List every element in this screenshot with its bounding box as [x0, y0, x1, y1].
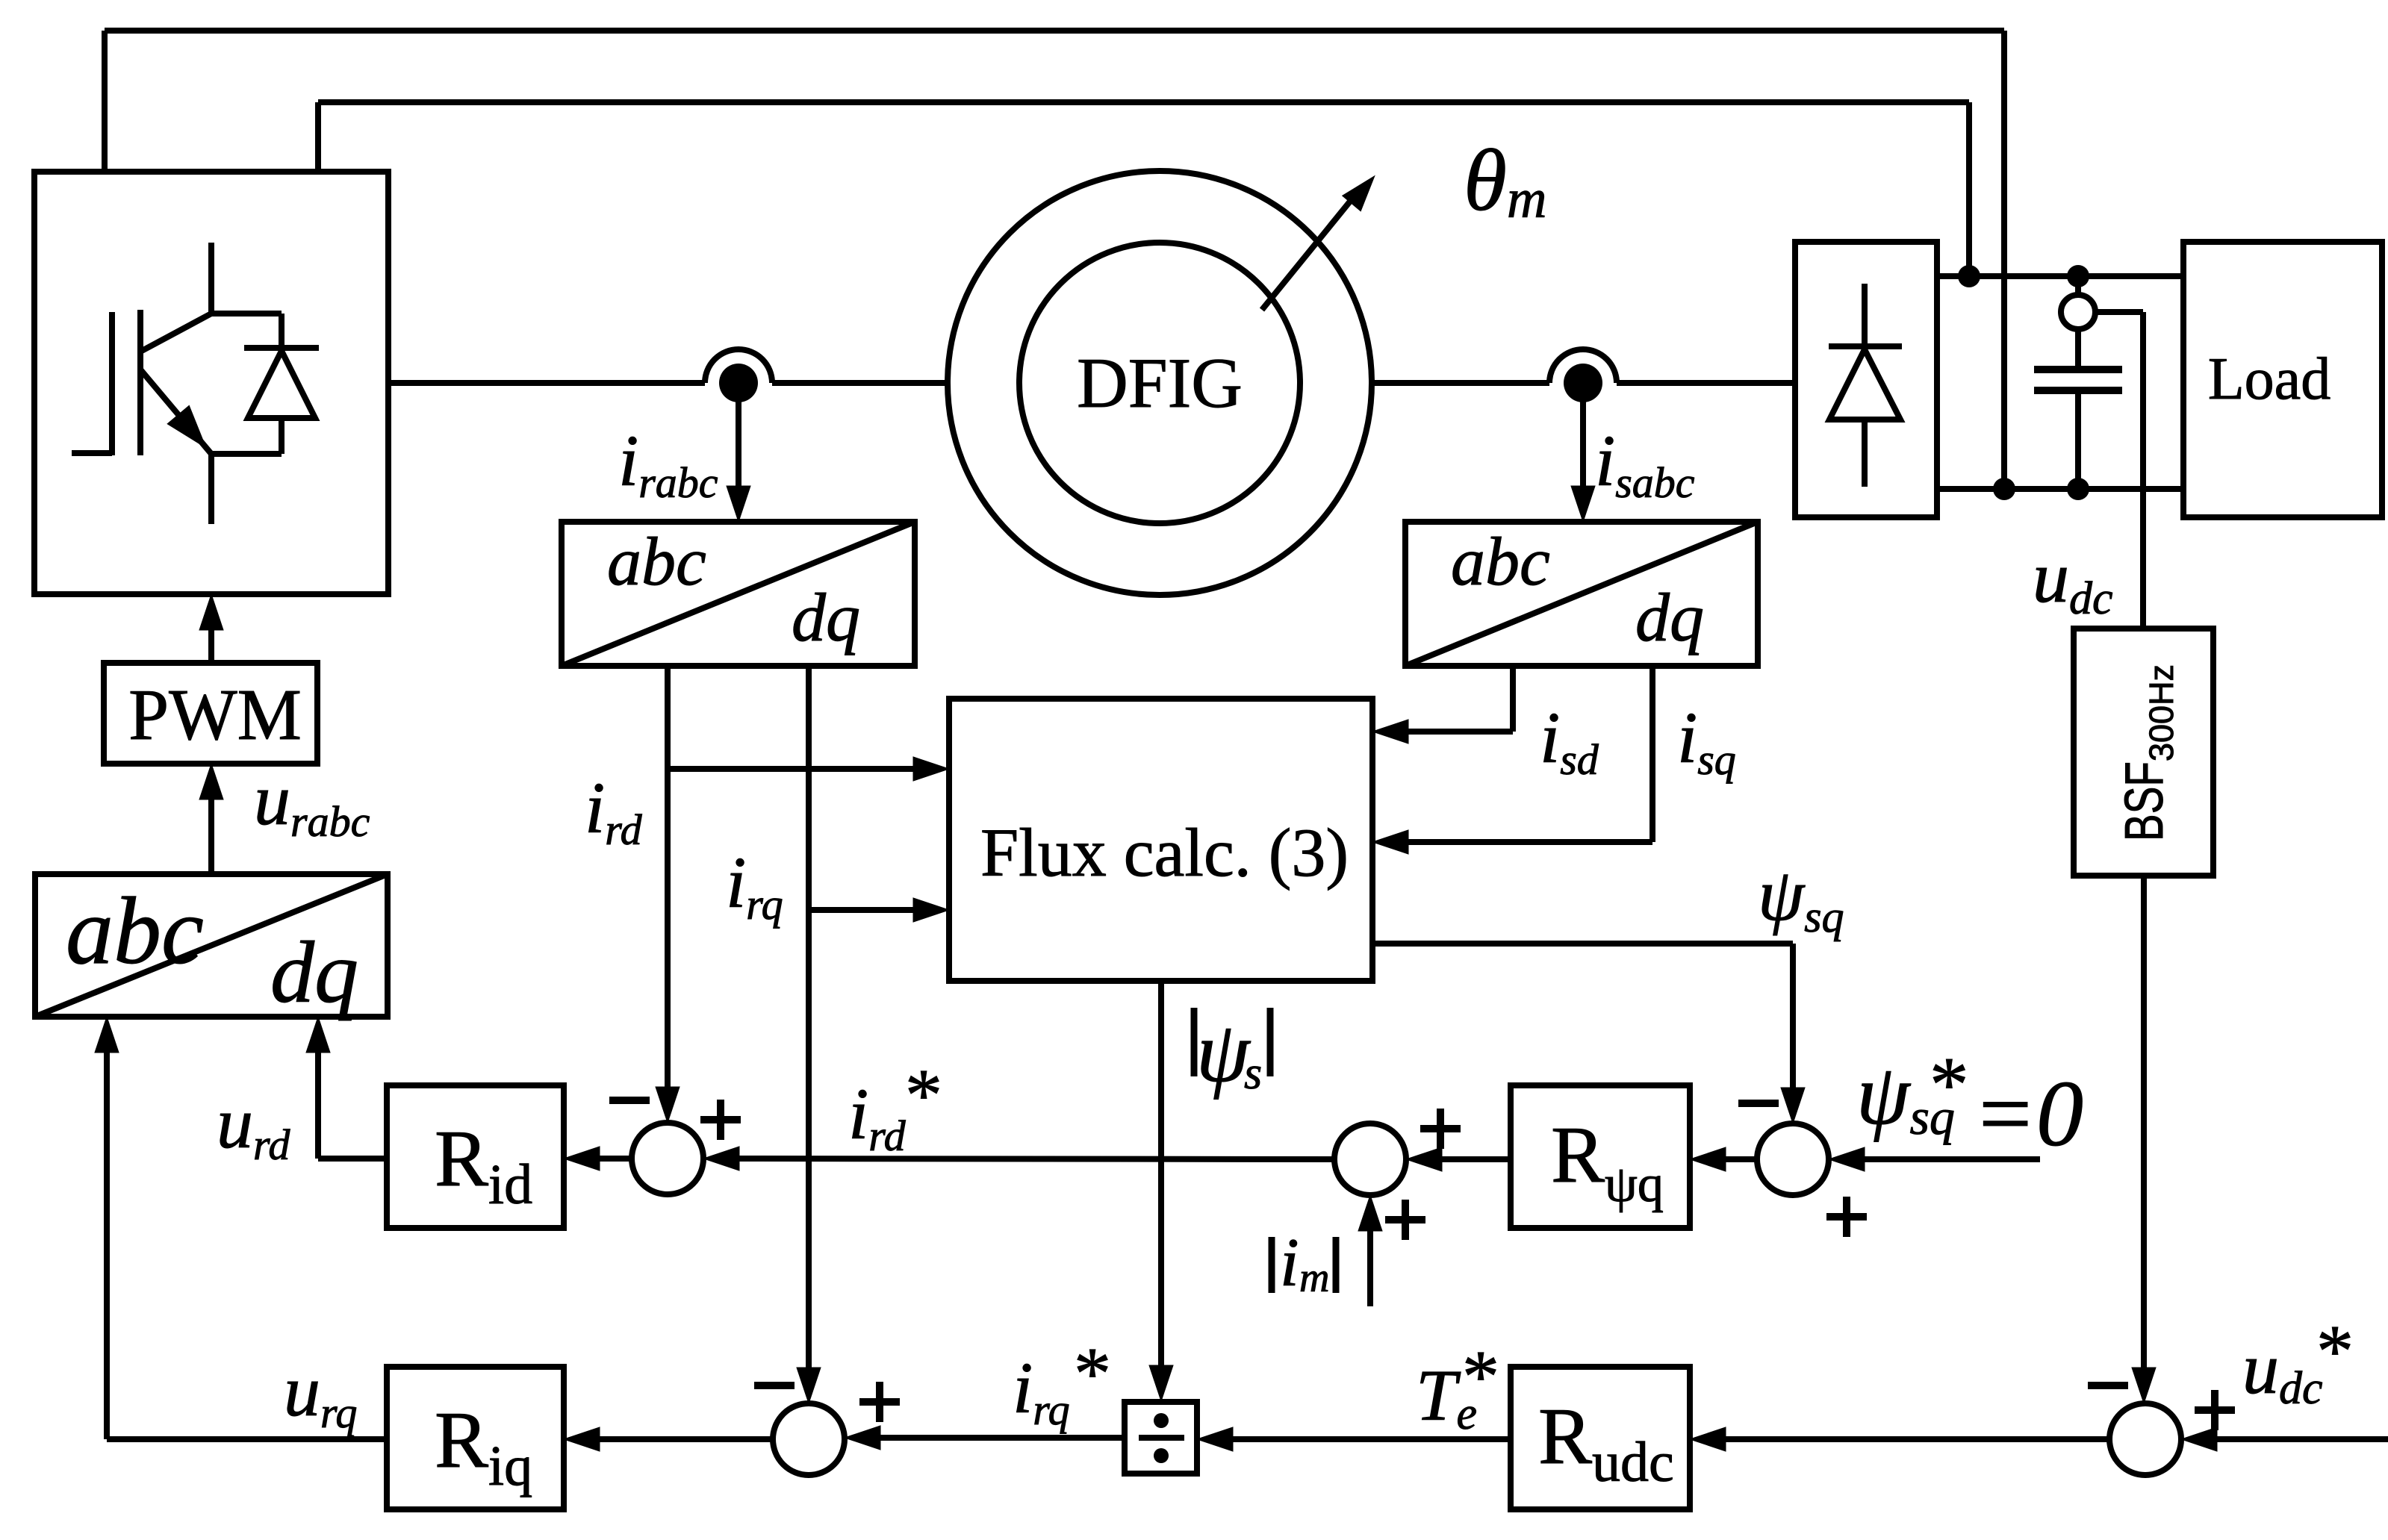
label u_rq — [284, 1351, 357, 1437]
rectifier box — [1795, 242, 1937, 517]
svg-text:irq: irq — [726, 843, 783, 929]
svg-text:Flux calc. (3): Flux calc. (3) — [980, 814, 1349, 891]
load box — [2183, 242, 2382, 517]
sign plus at S2 — [859, 1382, 900, 1422]
block stator abc-dq transform — [1405, 522, 1758, 666]
label u_rabc — [254, 760, 370, 846]
svg-text:Load: Load — [2208, 346, 2331, 412]
label u_rd — [217, 1083, 290, 1169]
label i_sq — [1677, 698, 1736, 784]
stator current sensor (arc + dot) — [1549, 349, 1617, 402]
block PWM modulator — [104, 663, 317, 764]
node DC- junction W1 — [1993, 478, 2015, 500]
summing junction S2 (i_rq error) — [773, 1403, 845, 1475]
machine DFIG outer circle — [948, 171, 1372, 595]
wire W2 second feedback (converter to DC+ rail) — [318, 102, 1969, 276]
wire i_rd branch to flux calc — [668, 757, 949, 781]
wire i_rq_ref from divider to S2 — [845, 1426, 1125, 1450]
svg-text:irabc: irabc — [618, 421, 718, 507]
node DC- junction capacitor — [2067, 478, 2089, 500]
voltage sense point circle — [2061, 276, 2095, 329]
block flux calculator — [949, 699, 1372, 981]
label u_dc — [2033, 537, 2113, 624]
svg-text:*: * — [905, 1053, 942, 1136]
label psi_sq_ref = 0 — [1856, 1041, 2083, 1166]
label voltage dq — [270, 923, 358, 1021]
label R_id — [435, 1115, 532, 1216]
svg-text:ψ: ψ — [1196, 1005, 1251, 1100]
svg-text:urq: urq — [284, 1351, 357, 1437]
wire S1 to R_id — [564, 1147, 632, 1170]
wire DC+ rail — [1937, 273, 2183, 279]
svg-text:i: i — [1280, 1224, 1299, 1300]
label rotor dq — [792, 579, 860, 655]
svg-text:dq: dq — [1635, 579, 1704, 655]
svg-text:isabc: isabc — [1595, 421, 1695, 507]
svg-text:Riq: Riq — [435, 1396, 532, 1497]
label i_rq_ref — [1013, 1332, 1111, 1434]
wire W1 top feedback (converter to DC- rail) — [105, 31, 2004, 489]
svg-text:m: m — [1299, 1255, 1329, 1301]
svg-text:dq: dq — [792, 579, 860, 655]
block BSF 300Hz band-stop filter — [2074, 629, 2213, 876]
svg-text:urd: urd — [217, 1083, 290, 1169]
machine DFIG inner circle — [1019, 243, 1300, 523]
wire i_rq vertical — [797, 666, 821, 1403]
wire i_rq branch to flux calc — [809, 898, 949, 922]
sign minus at S5 — [2088, 1382, 2128, 1389]
label voltage abc — [66, 878, 204, 984]
svg-text:Rudc: Rudc — [1538, 1392, 1674, 1494]
wire stator sensor to rectifier — [1617, 380, 1795, 386]
svg-text:*: * — [1462, 1335, 1499, 1418]
svg-text:urabc: urabc — [254, 760, 370, 846]
wire u_rq to voltage transform — [95, 1017, 387, 1439]
divider block (torque over flux) — [1125, 1402, 1197, 1474]
sign minus at S1 — [609, 1097, 650, 1104]
svg-text:s: s — [1244, 1048, 1262, 1099]
label R_udc — [1538, 1392, 1674, 1494]
wire |i_m| input — [1358, 1195, 1382, 1306]
svg-text:ψsq: ψsq — [1758, 853, 1844, 941]
wire psi_sq reference input — [1829, 1147, 2040, 1171]
label stator abc — [1451, 523, 1550, 599]
wire S4 to R_psiq — [1690, 1147, 1757, 1171]
sign plus at S1 — [700, 1100, 741, 1140]
arrow theta_m rotor position — [1262, 168, 1384, 310]
block regulator R_iq — [387, 1367, 564, 1509]
label R_psiq — [1551, 1111, 1664, 1213]
svg-text:Rid: Rid — [435, 1115, 532, 1216]
summing junction S1 (i_rd error) — [632, 1123, 703, 1194]
svg-text:Rψq: Rψq — [1551, 1111, 1664, 1213]
svg-text:abc: abc — [66, 878, 204, 984]
summing junction S4 (psi_sq error) — [1757, 1123, 1829, 1195]
wire PWM to converter — [199, 594, 223, 663]
svg-text:abc: abc — [607, 523, 706, 599]
label i_rd_ref — [848, 1053, 942, 1160]
label i_rabc — [618, 421, 718, 507]
label PWM — [128, 675, 302, 755]
sign plus at S4 — [1826, 1197, 1867, 1237]
wire i_rabc measurement drop — [727, 396, 750, 522]
capacitor C1 DC-link capacitor — [2034, 329, 2122, 489]
label |i_m| — [1272, 1224, 1336, 1301]
svg-text:BSF300Hz: BSF300Hz — [2115, 664, 2180, 841]
label Load — [2208, 346, 2331, 412]
rotor current sensor (arc + dot) — [705, 349, 772, 402]
label R_iq — [435, 1396, 532, 1497]
label DFIG — [1077, 343, 1243, 423]
wire u_rabc to PWM — [199, 764, 223, 874]
wire rotor sensor to DFIG — [772, 380, 948, 386]
wire u_rd to voltage transform — [306, 1017, 387, 1159]
label psi_sq — [1758, 853, 1844, 941]
wire S2 to R_iq — [564, 1427, 773, 1451]
sign minus at S2 — [754, 1382, 795, 1389]
svg-text:PWM: PWM — [128, 675, 302, 755]
svg-text:ird: ird — [848, 1074, 907, 1160]
svg-text:isd: isd — [1540, 698, 1599, 784]
wire flux magnitude |psi_s| output — [1149, 981, 1173, 1401]
wire BSF output u_dc to S5 — [2132, 876, 2156, 1403]
block regulator R_psiq — [1511, 1085, 1690, 1228]
label |psi_s| — [1194, 1005, 1270, 1100]
label T_e_ref — [1416, 1335, 1499, 1439]
diode D2 rectifier diode — [1829, 284, 1902, 487]
sign minus at S4 — [1738, 1100, 1779, 1107]
wire i_sq to flux calc — [1372, 666, 1652, 854]
sign plus at S5 — [2195, 1390, 2235, 1430]
wire R_psiq to S3 — [1406, 1147, 1511, 1171]
svg-text:ird: ird — [585, 768, 643, 854]
wire i_rd vertical — [656, 666, 680, 1123]
wire u_dc reference input — [2181, 1427, 2388, 1451]
node DC+ junction capacitor — [2067, 265, 2089, 287]
wire i_sd to flux calc — [1372, 666, 1513, 743]
label theta_m — [1464, 131, 1546, 230]
svg-text:*: * — [2316, 1309, 2354, 1392]
svg-text:abc: abc — [1451, 523, 1550, 599]
wire u_dc tap to BSF — [2094, 312, 2143, 629]
svg-text:DFIG: DFIG — [1077, 343, 1243, 423]
wire i_sabc measurement drop — [1571, 396, 1595, 522]
transistor Q1 IGBT emitter lead — [211, 454, 282, 524]
label Flux calc. (3) — [980, 814, 1349, 891]
transistor Q1 IGBT gate bars — [72, 310, 140, 455]
transistor Q1 IGBT collector lead — [211, 243, 282, 314]
wire DC- rail — [1937, 486, 2183, 492]
block regulator R_udc — [1511, 1367, 1690, 1509]
block rotor abc-dq transform — [562, 522, 915, 666]
wire rotor phase output from converter — [388, 380, 705, 386]
svg-text:dq: dq — [270, 923, 358, 1021]
label stator dq — [1635, 579, 1704, 655]
label i_sd — [1540, 698, 1599, 784]
converter box (rotor-side inverter) — [34, 172, 388, 594]
wire i_rd_ref from S3 to S1 — [703, 1147, 1334, 1170]
svg-text:udc: udc — [2242, 1329, 2323, 1414]
wire psi_sq output — [1372, 944, 1805, 1123]
block regulator R_id — [387, 1085, 564, 1228]
svg-text:=0: =0 — [1973, 1062, 2083, 1166]
svg-text:irq: irq — [1013, 1348, 1070, 1434]
label u_dc_ref — [2242, 1309, 2354, 1414]
label rotor abc — [607, 523, 706, 599]
sign plus upper at S3 — [1420, 1109, 1461, 1149]
svg-text:θm: θm — [1464, 131, 1546, 230]
svg-text:isq: isq — [1677, 698, 1736, 784]
label i_rq — [726, 843, 783, 929]
label i_rd — [585, 768, 643, 854]
diode D1 anti-parallel diode of IGBT — [244, 314, 319, 454]
label i_sabc — [1595, 421, 1695, 507]
summing junction S3 (magnetizing current add) — [1334, 1123, 1406, 1195]
transistor Q1 IGBT body diagonals with emitter arrow — [140, 314, 217, 457]
svg-text:*: * — [1930, 1041, 1969, 1128]
wire DFIG stator output — [1372, 380, 1549, 386]
wire T_e_ref from R_udc to divider — [1197, 1427, 1511, 1451]
block voltage dq-abc transform — [35, 874, 388, 1017]
label BSF_300Hz — [2115, 664, 2180, 841]
sign plus lower at S3 — [1385, 1200, 1425, 1240]
node DC+ junction W2 — [1958, 265, 1980, 287]
svg-text:udc: udc — [2033, 537, 2113, 624]
svg-text:*: * — [1074, 1332, 1111, 1415]
wire S5 to R_udc — [1690, 1427, 2109, 1451]
summing junction S5 (u_dc error) — [2109, 1403, 2181, 1475]
